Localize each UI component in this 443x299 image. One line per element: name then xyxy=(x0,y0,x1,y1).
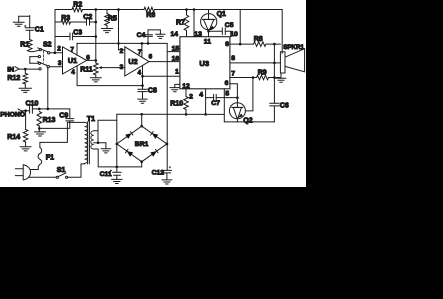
T1 secondary winding xyxy=(91,131,94,149)
svg-text:6: 6 xyxy=(225,80,229,87)
svg-text:8: 8 xyxy=(231,55,235,62)
svg-text:13: 13 xyxy=(194,31,202,38)
fuse F1 xyxy=(38,148,42,167)
svg-text:R9: R9 xyxy=(258,70,267,77)
svg-text:4: 4 xyxy=(138,69,142,76)
wire plug to fuse xyxy=(30,166,38,169)
svg-text:10: 10 xyxy=(230,31,238,38)
junction at 274.4,77.5 xyxy=(273,76,276,79)
wire Q2 collector to R9 node xyxy=(245,78,253,111)
resistor R12 xyxy=(23,73,28,84)
wire U1 pin4 down and right xyxy=(77,66,142,86)
junction at 25.6,110.7 xyxy=(24,109,27,112)
wire S2 upper common to U1 pin2 xyxy=(50,52,63,54)
wire U1 pin7 to V rail xyxy=(76,43,78,55)
junction at 186.5,9.5 xyxy=(185,8,188,11)
resistor R7 xyxy=(186,10,188,16)
svg-text:S1: S1 xyxy=(57,167,66,174)
junction at 95.8,36.5 xyxy=(95,35,98,38)
wire U3 pin5 vertical xyxy=(223,89,225,122)
junction at 39.3,128.4 xyxy=(38,127,41,130)
junction at 166.9,143.9 xyxy=(166,143,169,146)
wire S2 lower common to U1 pin3 xyxy=(49,66,62,68)
wire U3 pin7 to R9 xyxy=(230,77,257,79)
resistor R5 xyxy=(106,10,108,14)
wire top rail y9.5 xyxy=(55,9,72,11)
ground below C8 xyxy=(142,92,144,100)
svg-text:C2: C2 xyxy=(83,14,92,21)
diode BR1 lower-left xyxy=(127,151,133,157)
svg-text:BR1: BR1 xyxy=(135,141,149,148)
wire secondary top to bridge xyxy=(94,130,98,132)
wire power vertical x167.2 xyxy=(166,43,168,170)
svg-text:R2: R2 xyxy=(73,2,82,9)
capacitor C5 xyxy=(209,30,223,32)
junction at 141.7,126.1 xyxy=(140,125,143,128)
wire U3 pin13 from rail xyxy=(193,10,195,37)
wire mid feedback rail y22 xyxy=(55,21,61,23)
plug AC xyxy=(15,168,23,170)
resistor R1 xyxy=(27,40,32,52)
wire speaker bottom to ground xyxy=(280,73,282,78)
junction at 141.9,43.4 xyxy=(141,42,144,45)
diode BR1 upper-left xyxy=(125,133,131,139)
svg-text:R3: R3 xyxy=(61,15,70,22)
resistor R2 xyxy=(72,7,83,12)
junction at 54.9,52.8 xyxy=(54,52,57,55)
wire U2 output to U3 pin16 xyxy=(149,61,180,63)
junction at 148.0,43.4 xyxy=(147,42,150,45)
junction at 141.7,161.7 xyxy=(140,160,143,163)
capacitor C11 xyxy=(113,171,122,173)
wire Q2 emitter down xyxy=(236,118,238,122)
junction at 47.8,108.9 xyxy=(47,108,50,111)
svg-text:3: 3 xyxy=(58,60,62,67)
wire U3 pin4 stub xyxy=(205,89,207,115)
resistor R10 xyxy=(185,89,187,97)
svg-text:C12: C12 xyxy=(152,170,165,177)
wire S1 to T1 primary bottom xyxy=(68,164,85,177)
junction at 116.8,166.9 xyxy=(116,166,119,169)
svg-text:C5: C5 xyxy=(225,22,234,29)
wire fuse to T1 primary xyxy=(40,122,85,147)
svg-text:C9: C9 xyxy=(59,113,68,120)
junction at 142.5,85.6 xyxy=(141,84,144,87)
ground below C12 xyxy=(162,179,172,181)
ground below speaker xyxy=(276,77,286,79)
junction at 116.8,143.9 xyxy=(116,143,119,146)
ground below C11 xyxy=(112,178,123,180)
wire U3 pin15 xyxy=(167,51,180,53)
junction at 274.4,44.1 xyxy=(273,43,276,46)
wire ground feed top-left xyxy=(19,15,30,17)
wire S2 lower common down to phono node xyxy=(47,68,49,109)
svg-text:IN: IN xyxy=(7,67,14,74)
wire plug to S1 xyxy=(29,176,56,178)
resistor R8 xyxy=(254,42,267,47)
capacitor C10 xyxy=(29,106,31,113)
svg-text:R6: R6 xyxy=(146,12,155,19)
wire C1 top lead xyxy=(29,16,31,28)
wire U2 pin4 down xyxy=(142,66,144,90)
junction at 141.7,114.3 xyxy=(140,113,143,116)
ground below R11 xyxy=(95,75,97,78)
svg-text:7: 7 xyxy=(70,46,74,53)
ground below R14 xyxy=(20,146,31,148)
wire bridge bottom lead xyxy=(141,162,143,167)
junction at 95.8,60.4 xyxy=(95,59,98,62)
resistor R13 xyxy=(37,112,42,127)
svg-text:2: 2 xyxy=(120,48,124,55)
svg-text:4: 4 xyxy=(71,69,75,76)
svg-text:7: 7 xyxy=(231,71,235,78)
svg-text:2: 2 xyxy=(189,93,193,100)
potentiometer R11 xyxy=(94,63,99,75)
svg-text:C6: C6 xyxy=(280,102,289,109)
T1 core xyxy=(87,122,89,164)
wire R1 to S2 contact xyxy=(30,50,39,51)
wire supply vertical x118.5 xyxy=(118,10,120,50)
wire ground rail y114.4 xyxy=(117,113,225,115)
svg-text:16: 16 xyxy=(172,56,180,63)
svg-text:R10: R10 xyxy=(170,101,183,108)
svg-text:C11: C11 xyxy=(100,171,112,178)
transistor Q1 xyxy=(201,14,217,30)
diode BR1 lower-right xyxy=(150,151,157,157)
svg-text:R1: R1 xyxy=(20,41,29,48)
svg-text:R13: R13 xyxy=(43,117,56,124)
ground below R12 xyxy=(24,84,26,88)
capacitor C2 xyxy=(86,19,88,25)
svg-text:R12: R12 xyxy=(7,75,20,82)
wire R7 to U3 pin14 xyxy=(186,31,188,37)
resistor R6 xyxy=(144,7,155,12)
capacitor C1 xyxy=(25,27,34,29)
svg-text:R7: R7 xyxy=(176,20,185,27)
ground at U3 pin12 xyxy=(175,84,180,87)
svg-text:11: 11 xyxy=(204,38,211,45)
wire U2 pin7 xyxy=(141,43,143,57)
ground below R5 xyxy=(106,26,108,29)
svg-text:R11: R11 xyxy=(80,67,93,74)
svg-text:5: 5 xyxy=(225,91,229,98)
svg-text:PHONO: PHONO xyxy=(0,111,25,118)
svg-text:C1: C1 xyxy=(35,27,44,34)
junction at 240.2,44.1 xyxy=(239,43,242,46)
svg-text:U2: U2 xyxy=(128,57,137,66)
capacitor C6 xyxy=(270,102,280,104)
wire U3 pin6 to Q2 base xyxy=(230,84,238,98)
diode BR1 upper-right xyxy=(152,133,159,139)
svg-text:9: 9 xyxy=(225,41,229,48)
wire secondary center tap to ground xyxy=(94,142,106,144)
junction at 186.0,114.4 xyxy=(185,113,188,116)
capacitor C12 xyxy=(162,169,171,171)
wire secondary bottom to bridge xyxy=(94,149,142,167)
junction at 95.8,22.0 xyxy=(95,21,98,24)
junction at 98.0,142.8 xyxy=(97,142,100,145)
ground below R13 xyxy=(38,128,40,132)
svg-text:U3: U3 xyxy=(199,59,209,68)
junction at 208.5,31.3 xyxy=(207,30,210,33)
junction at 142.5,76.2 xyxy=(141,75,144,78)
junction at 95.8,9.5 xyxy=(95,8,98,11)
junction at 237.4,97.7 xyxy=(236,96,239,99)
svg-text:4: 4 xyxy=(199,92,203,99)
svg-text:C10: C10 xyxy=(26,100,39,107)
op-amp U1 xyxy=(63,47,87,74)
capacitor C9 loop xyxy=(69,109,71,119)
junction at 194.0,9.5 xyxy=(193,8,196,11)
capacitor C8 xyxy=(138,88,147,90)
capacitor C4 xyxy=(144,34,153,36)
capacitor C7 xyxy=(206,97,214,99)
svg-text:C8: C8 xyxy=(148,87,157,94)
wire bridge left vertical xyxy=(116,114,118,172)
svg-text:7: 7 xyxy=(138,49,142,56)
IC U3 xyxy=(180,37,230,89)
svg-text:T1: T1 xyxy=(87,116,95,123)
svg-text:F1: F1 xyxy=(46,155,54,162)
junction at 118.5,9.5 xyxy=(117,8,120,11)
op-amp U2 xyxy=(125,47,149,76)
wire from top rail to pin9 node xyxy=(239,10,241,45)
junction at 118.5,43.4 xyxy=(117,42,120,45)
bridge rectifier BR1 xyxy=(117,126,167,162)
wire R8 node down C6 branch xyxy=(273,44,275,103)
wire C3 rail y36.5 xyxy=(55,36,70,38)
svg-text:R5: R5 xyxy=(108,15,117,22)
wire U3 pin8 to speaker xyxy=(230,62,281,64)
svg-text:R14: R14 xyxy=(7,134,20,141)
svg-text:14: 14 xyxy=(171,31,179,38)
junction at 274.4,62.9 xyxy=(273,62,276,65)
wire pin1 rail y76.2 xyxy=(143,75,180,77)
svg-text:Q1: Q1 xyxy=(217,11,226,18)
junction at 205.6,114.4 xyxy=(204,113,207,116)
svg-text:C7: C7 xyxy=(211,100,220,107)
wire phono node xyxy=(32,108,69,110)
svg-text:R8: R8 xyxy=(254,36,263,43)
wire Q2 emitter rail xyxy=(224,121,274,123)
svg-text:15: 15 xyxy=(172,45,180,52)
svg-text:2: 2 xyxy=(57,46,61,53)
svg-text:1: 1 xyxy=(175,69,179,76)
ground G1 top-left xyxy=(18,16,20,22)
wire S2 middle contacts bracket xyxy=(30,56,39,58)
junction at 25.3,69.1 xyxy=(24,68,27,71)
wire bridge top to ground rail xyxy=(141,114,143,126)
wire R11 wiper to U2 pin3 xyxy=(101,67,125,69)
wire top rail to speaker xyxy=(281,10,283,54)
wire U2 pin2 xyxy=(119,49,125,51)
wire U3 pin9 to R8 xyxy=(230,43,254,45)
wire V rail y43.4 xyxy=(77,42,167,44)
ground right of C4 xyxy=(156,33,166,35)
svg-text:C3: C3 xyxy=(73,29,82,36)
junction at 39.3,108.9 xyxy=(38,108,41,111)
resistor R14 xyxy=(25,111,27,130)
junction at 166.9,143.9 xyxy=(166,143,169,146)
resistor R3 xyxy=(61,20,71,24)
wire C1-R1 xyxy=(29,30,31,39)
svg-text:Q2: Q2 xyxy=(243,117,252,124)
resistor R9 xyxy=(257,75,269,80)
wire feedback left vertical xyxy=(54,10,56,53)
svg-text:S2: S2 xyxy=(43,42,52,49)
svg-text:U1: U1 xyxy=(68,56,77,65)
svg-text:3: 3 xyxy=(120,64,124,71)
svg-text:6: 6 xyxy=(149,54,153,61)
wire U1 output xyxy=(87,59,96,61)
svg-text:C4: C4 xyxy=(137,32,146,39)
capacitor C3 xyxy=(69,33,71,40)
transistor Q2 xyxy=(229,103,245,119)
junction at 253.0,77.5 xyxy=(252,76,255,79)
wire U1 output vertical x95.8 xyxy=(95,10,97,64)
